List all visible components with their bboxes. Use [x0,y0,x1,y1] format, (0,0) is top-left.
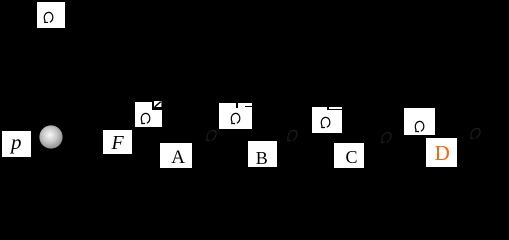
label A [171,148,185,167]
box B [248,141,277,167]
box C [334,143,364,168]
faint o glyph 1 [206,129,217,142]
box O1 with corner icon [135,102,162,127]
faint o glyph 2 [287,129,298,142]
faint o glyph 4 [470,127,481,140]
glyph O3 [320,116,331,129]
box O2 with tab icon [219,103,252,129]
box O3 with overbar icon [312,107,342,133]
box F [103,130,132,154]
label B [256,149,268,167]
glyph O top-left [43,11,54,24]
box p [2,131,31,157]
glyph O2 [230,112,241,125]
O2 tab icon gap [236,103,237,108]
box A [160,143,192,168]
O1 corner icon: black notch [152,102,162,110]
O1 corner icon: white square with diagonal [154,101,161,108]
label F [112,133,124,153]
O2 tab icon slit [245,106,252,108]
O3 overbar gap [327,107,328,110]
glyph O4 [414,120,425,133]
O3 overbar slit [329,109,342,111]
faint o glyph 3 [381,131,392,144]
glyph O1 [140,112,151,125]
box O top-left [37,2,65,28]
ball [39,125,63,149]
label C [346,148,358,166]
box O4 [404,108,435,135]
label D orange [435,143,450,164]
box D [426,138,457,167]
label p [11,132,22,153]
